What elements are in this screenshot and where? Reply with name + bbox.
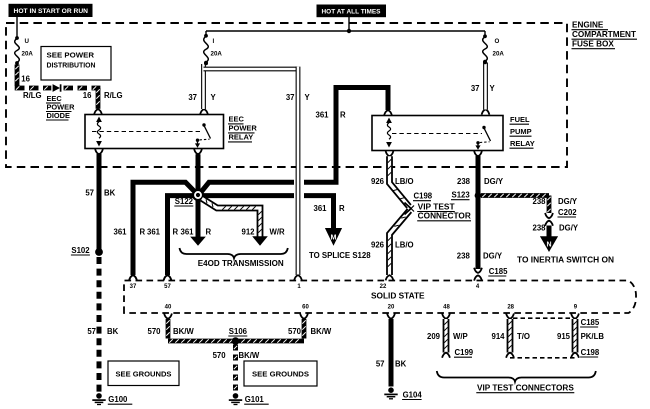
svg-text:SEE POWER: SEE POWER (47, 51, 95, 60)
svg-text:VIP TEST: VIP TEST (418, 202, 455, 211)
svg-text:C202: C202 (558, 208, 577, 217)
svg-text:60: 60 (302, 305, 309, 311)
svg-text:C185: C185 (489, 267, 508, 276)
svg-text:37: 37 (286, 93, 295, 102)
svg-text:HOT IN START OR RUN: HOT IN START OR RUN (14, 8, 89, 15)
svg-text:E4OD TRANSMISSION: E4OD TRANSMISSION (198, 259, 284, 268)
svg-text:BK: BK (395, 359, 407, 368)
svg-text:209: 209 (427, 332, 441, 341)
svg-text:C185: C185 (581, 318, 600, 327)
svg-text:VIP TEST CONNECTORS: VIP TEST CONNECTORS (477, 384, 574, 393)
svg-text:37: 37 (471, 84, 480, 93)
svg-text:238: 238 (532, 223, 546, 232)
svg-text:R: R (173, 228, 179, 237)
svg-text:BK/W: BK/W (311, 327, 332, 336)
svg-text:HOT AT ALL TIMES: HOT AT ALL TIMES (322, 9, 382, 16)
svg-text:DIODE: DIODE (47, 111, 70, 120)
svg-text:914: 914 (491, 332, 505, 341)
svg-text:DG/Y: DG/Y (558, 197, 578, 206)
svg-text:SEE GROUNDS: SEE GROUNDS (116, 370, 172, 379)
svg-text:570: 570 (213, 351, 227, 360)
svg-text:DG/Y: DG/Y (483, 252, 503, 261)
svg-text:DG/Y: DG/Y (559, 223, 579, 232)
svg-text:ENGINE: ENGINE (572, 21, 604, 30)
svg-text:S123: S123 (452, 191, 471, 200)
svg-text:570: 570 (147, 327, 161, 336)
svg-text:22: 22 (380, 284, 387, 290)
svg-text:R: R (206, 228, 212, 237)
svg-text:PK/LB: PK/LB (581, 332, 605, 341)
svg-text:Y: Y (305, 93, 311, 102)
svg-text:915: 915 (557, 332, 571, 341)
svg-text:R: R (340, 111, 346, 120)
svg-text:28: 28 (507, 305, 514, 311)
svg-text:BK: BK (107, 327, 119, 336)
svg-text:EEC: EEC (229, 115, 245, 124)
svg-text:DISTRIBUTION: DISTRIBUTION (47, 60, 96, 69)
svg-text:926: 926 (371, 177, 385, 186)
svg-text:S102: S102 (71, 246, 90, 255)
svg-text:238: 238 (457, 177, 471, 186)
svg-text:361: 361 (315, 111, 329, 120)
svg-text:RELAY: RELAY (510, 139, 535, 148)
svg-text:SOLID STATE: SOLID STATE (371, 292, 425, 301)
svg-text:16: 16 (21, 74, 30, 83)
svg-text:C198: C198 (581, 348, 600, 357)
svg-text:FUEL: FUEL (510, 115, 530, 124)
svg-text:20: 20 (388, 305, 395, 311)
svg-text:57: 57 (87, 327, 96, 336)
svg-text:PUMP: PUMP (510, 127, 532, 136)
svg-text:R/LG: R/LG (23, 91, 42, 100)
svg-text:20A: 20A (211, 51, 223, 58)
svg-text:TO INERTIA SWITCH ON: TO INERTIA SWITCH ON (517, 256, 614, 265)
svg-text:CONNECTOR: CONNECTOR (418, 212, 471, 221)
svg-text:361: 361 (313, 204, 327, 213)
svg-text:37: 37 (130, 284, 137, 290)
svg-text:C198: C198 (414, 192, 433, 201)
svg-text:G101: G101 (245, 395, 265, 404)
svg-text:20A: 20A (22, 51, 34, 58)
svg-text:BK/W: BK/W (173, 327, 194, 336)
svg-text:O: O (495, 38, 500, 45)
svg-text:LB/O: LB/O (395, 177, 414, 186)
svg-text:BK: BK (104, 188, 116, 197)
svg-text:570: 570 (288, 327, 302, 336)
svg-text:238: 238 (532, 197, 546, 206)
svg-text:T/O: T/O (517, 332, 530, 341)
svg-text:Y: Y (490, 84, 496, 93)
svg-text:R/LG: R/LG (104, 91, 123, 100)
svg-text:SEE GROUNDS: SEE GROUNDS (252, 370, 309, 379)
svg-text:912: 912 (241, 228, 255, 237)
svg-text:57: 57 (376, 359, 385, 368)
svg-text:M: M (331, 233, 337, 242)
svg-text:W/P: W/P (453, 332, 468, 341)
svg-text:Y: Y (211, 93, 217, 102)
svg-text:G100: G100 (108, 395, 128, 404)
svg-text:I: I (213, 38, 215, 45)
svg-text:G104: G104 (403, 390, 423, 399)
svg-text:POWER: POWER (229, 124, 258, 133)
svg-text:U: U (25, 38, 30, 45)
svg-text:R: R (140, 228, 146, 237)
svg-text:20A: 20A (493, 51, 505, 58)
svg-text:BK/W: BK/W (239, 351, 260, 360)
svg-text:TO SPLICE S128: TO SPLICE S128 (309, 251, 371, 260)
svg-text:57: 57 (85, 188, 94, 197)
svg-text:48: 48 (443, 305, 450, 311)
svg-text:N: N (546, 242, 551, 249)
svg-text:RELAY: RELAY (229, 133, 254, 142)
svg-text:361: 361 (180, 228, 194, 237)
svg-text:LB/O: LB/O (395, 240, 414, 249)
svg-text:238: 238 (457, 252, 471, 261)
svg-text:COMPARTMENT: COMPARTMENT (572, 30, 636, 39)
svg-text:40: 40 (165, 305, 172, 311)
svg-text:DG/Y: DG/Y (484, 177, 504, 186)
svg-text:R: R (339, 204, 345, 213)
svg-text:W/R: W/R (270, 228, 286, 237)
svg-text:S122: S122 (175, 197, 194, 206)
svg-text:C199: C199 (455, 348, 474, 357)
svg-text:S106: S106 (229, 327, 248, 336)
svg-text:361: 361 (113, 228, 127, 237)
svg-text:361: 361 (147, 228, 161, 237)
svg-text:37: 37 (188, 93, 197, 102)
svg-text:926: 926 (371, 240, 385, 249)
svg-text:FUSE BOX: FUSE BOX (572, 40, 614, 49)
svg-text:16: 16 (83, 91, 92, 100)
svg-text:57: 57 (164, 284, 171, 290)
